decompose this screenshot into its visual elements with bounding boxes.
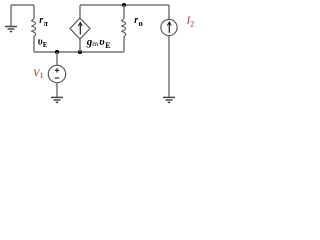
- resistor R2 (r_o): [122, 18, 126, 37]
- node junction V1 top: [55, 50, 59, 54]
- voltage source V1: [48, 65, 65, 82]
- wire left vertical to ground: [10, 5, 12, 26]
- wire dep-source top: [79, 5, 81, 18]
- svg-text:V1: V1: [33, 68, 43, 80]
- svg-text:υE: υE: [38, 36, 48, 48]
- arrow inside dep source: [78, 23, 82, 35]
- dependent current source G1 (diamond): [70, 18, 90, 39]
- node junction rO top: [122, 3, 126, 7]
- wire dep-source bottom: [79, 39, 81, 52]
- svg-text:I2: I2: [186, 16, 194, 29]
- current source I2: [161, 19, 177, 35]
- wire rO bottom: [123, 37, 125, 53]
- wire V1 top: [56, 52, 58, 65]
- node junction dependent source bottom: [78, 50, 82, 54]
- svg-text:gmυE: gmυE: [86, 36, 111, 50]
- wire rpi bottom: [33, 37, 35, 53]
- wire top middle horizontal: [80, 4, 169, 6]
- resistor R1 (r_pi): [32, 18, 36, 37]
- ground (below I2): [163, 97, 175, 102]
- svg-text:rπ: rπ: [39, 15, 48, 28]
- ground (left): [5, 27, 17, 32]
- wire rO top: [123, 5, 125, 18]
- svg-text:ro: ro: [134, 15, 142, 28]
- wire rpi top: [33, 5, 35, 18]
- wire I2 bottom vertical: [168, 36, 170, 97]
- wire V1 bottom: [56, 83, 58, 97]
- wire middle horizontal: [34, 51, 124, 53]
- wire top-left horizontal: [11, 4, 34, 6]
- wire I2 top vertical: [168, 5, 170, 19]
- ground (below V1): [51, 97, 63, 102]
